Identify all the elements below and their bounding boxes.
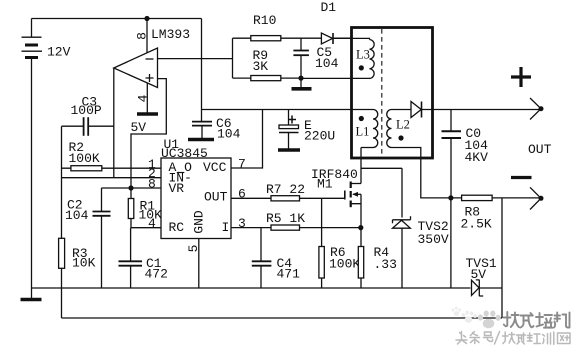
pin 8 stub LM393 [135,19,150,54]
svg-text:100P: 100P [71,103,102,118]
wire LM393 plus input to 5V ref node [131,79,166,188]
resistor R7 22 [266,182,305,201]
resistor R2 100K [62,140,162,171]
capacitor C6 104 [192,116,241,142]
ground (battery) [21,298,42,302]
inductor L3 (aux winding) [334,38,374,78]
minus output symbol [511,176,532,179]
svg-text:12V: 12V [47,45,71,60]
diode TVS1 5V [466,256,497,296]
wire 12V rail corner down to C6 [201,19,203,122]
svg-text:100K: 100K [329,257,360,272]
svg-text:L3: L3 [356,48,370,62]
wire R9/R10 left bus [232,38,234,78]
wire R7 to gate [300,197,345,199]
svg-text:100K: 100K [69,151,100,166]
svg-text:M1: M1 [317,177,333,192]
ground (E cap) [278,148,300,152]
svg-text:L2: L2 [396,118,410,132]
wire pin5 GND down to bus [198,239,200,289]
svg-text:R10: R10 [253,13,276,28]
wire L3 bottom to R9/C5 ground node [301,77,370,79]
svg-text:RC: RC [169,220,185,235]
svg-text:220U: 220U [304,129,335,144]
wire pin2 IN- line [62,177,162,179]
node dot L3 polarity [359,65,364,70]
svg-text:104: 104 [65,208,89,223]
wire pin7 VCC riser [231,110,263,169]
svg-text:2.5K: 2.5K [461,217,492,232]
capacitor C0 104 4KV [442,110,489,198]
resistor R6 100K [319,198,361,288]
plus output symbol [511,67,531,87]
svg-text:OUT: OUT [204,190,228,205]
svg-text:.33: .33 [374,257,397,272]
svg-text:L1: L1 [356,125,370,139]
resistor R8 2.5K [451,195,541,231]
svg-text:5V: 5V [131,120,147,135]
wire top 12V rail [32,18,202,20]
svg-text:4KV: 4KV [465,150,489,165]
transformer T1 core box [352,28,433,159]
resistor R5 1K [266,211,305,230]
wire LM393 output down to pin2 line [113,68,115,178]
wire C0 node down to ground bus [450,198,452,288]
transistor Q1 IRF840 MOSFET [311,167,361,228]
resistor R9 3K [233,48,302,81]
node dot L1 polarity [359,116,364,121]
diode TVS2 350V [361,168,449,288]
inductor L1 (primary) [356,110,378,148]
capacitor C2 104 [65,188,111,288]
wire pin8 VR line [102,187,162,189]
svg-text:4: 4 [135,94,150,102]
svg-text:VR: VR [169,181,185,196]
wire pin3 I line [231,227,271,229]
watermark paw logo [478,311,501,329]
svg-text:R7 22: R7 22 [266,182,305,197]
terminal arrow plus out [530,98,544,120]
pin number labels U1 [148,156,246,252]
svg-text:OUT: OUT [528,142,552,157]
wire pin4 RC line [131,227,161,229]
node junction dot top rail [144,16,149,21]
node dot C0/R8 junction [448,195,453,200]
ground (C6) [188,138,214,142]
wire bottom bus lower [62,317,503,319]
pin 4 stub LM393 [135,83,150,113]
svg-text:GND: GND [192,210,207,234]
svg-text:VCC: VCC [203,160,227,175]
svg-text:3K: 3K [253,59,269,74]
OUT label [528,142,552,157]
svg-text:I: I [222,220,230,235]
battery 12V [22,19,71,60]
svg-text:5V: 5V [471,267,487,282]
resistor R4 .33 [358,228,397,288]
capacitor E 220U electrolytic [279,110,335,150]
IC U1 UC3845 [161,137,231,239]
svg-text:472: 472 [145,267,168,282]
wire minus out down right column [501,198,503,318]
node dot VR/5V [128,185,133,190]
op-amp U2 LM393 [114,27,190,88]
capacitor C3 100P [62,95,114,136]
svg-text:UC3845: UC3845 [161,146,208,161]
node dot R9/C5/gnd [298,76,303,81]
node dot source junction [358,225,363,230]
wire 12V mid rail to transformer L1 [202,109,374,111]
svg-text:104: 104 [217,127,241,142]
watermark text line2 头条号/技成培训网 [456,332,570,345]
wire ground bus upper [32,287,503,289]
diode D2 output rectifier [411,102,541,118]
terminal arrow minus out [530,187,544,209]
ground (R9/C5) [292,78,312,89]
5V rail bar at LM393 pin 4 [131,114,159,135]
svg-text:LM393: LM393 [151,27,190,42]
resistor R10 [233,13,281,41]
wire pin6 OUT line [231,197,271,199]
inductor L2 (secondary) [387,110,451,198]
capacitor C5 104 [293,38,338,78]
svg-text:350V: 350V [418,232,449,247]
svg-text:3: 3 [238,216,246,231]
resistor R3 10K [59,238,96,270]
svg-text:8: 8 [135,32,150,40]
svg-text:104: 104 [315,56,339,71]
wire LM393 minus input to R9/R10 [158,58,233,60]
svg-text:6: 6 [238,187,246,202]
wire battery down to ground [31,58,33,300]
svg-text:7: 7 [238,156,246,171]
svg-text:471: 471 [277,267,301,282]
watermark text line1 技成培训 [504,312,570,328]
watermark faint paw trail [452,307,477,323]
svg-text:4: 4 [148,216,156,231]
wire drain up to transformer L1 [360,148,362,184]
svg-text:D1: D1 [321,0,337,15]
capacitor C1 472 [119,228,168,288]
svg-text:8: 8 [148,177,156,192]
resistor R1 10K [128,188,162,228]
node dot L2 polarity [398,135,403,140]
capacitor C4 471 [252,228,300,288]
svg-text:10K: 10K [72,256,96,271]
diode D1 [281,0,352,44]
svg-text:R5 1K: R5 1K [266,211,305,226]
wire R5 to source node [300,227,361,229]
wire left node column x61 [61,126,63,318]
